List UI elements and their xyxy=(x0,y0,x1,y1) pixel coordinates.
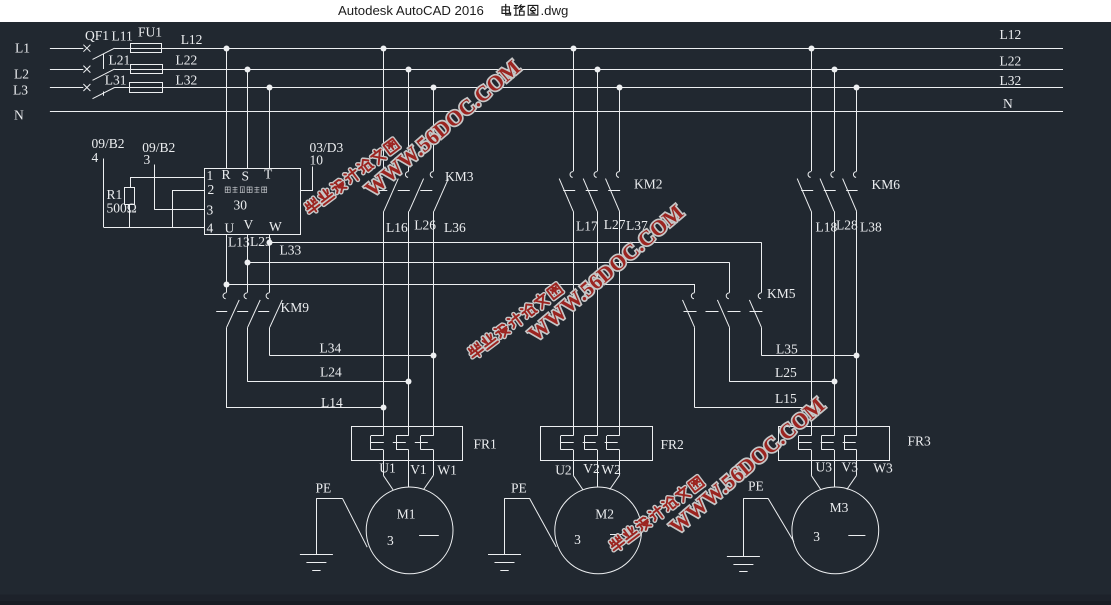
wire L13 feed line xyxy=(226,284,694,286)
label L18 xyxy=(816,220,838,235)
label L32 xyxy=(176,72,198,87)
label L17 xyxy=(576,219,598,234)
net label L12 right xyxy=(1000,27,1022,42)
svg-text:QF1: QF1 xyxy=(85,28,109,43)
wire pin2 xyxy=(172,190,204,227)
wire L34 xyxy=(269,355,433,357)
label PE M3 xyxy=(748,479,764,494)
wire L38 xyxy=(856,211,858,426)
breaker QF1 pole 2 xyxy=(83,66,130,81)
svg-text:L27: L27 xyxy=(604,217,626,232)
svg-text:KM5: KM5 xyxy=(767,286,796,301)
label L34 xyxy=(320,341,342,356)
svg-text:L11: L11 xyxy=(112,28,133,43)
svg-text:FU1: FU1 xyxy=(138,24,162,39)
label KM9 xyxy=(281,300,310,315)
wire L16 xyxy=(383,211,385,426)
label L25 xyxy=(775,365,797,380)
motor M3 xyxy=(792,487,879,574)
watermark 1 xyxy=(303,55,525,215)
svg-text:3: 3 xyxy=(207,203,214,218)
wire KM9 pole1 to L14 xyxy=(226,327,228,408)
resistor R1 xyxy=(125,188,135,205)
label U3 xyxy=(816,460,833,475)
svg-text:L32: L32 xyxy=(1000,73,1022,88)
wire PE M3 xyxy=(743,498,794,556)
net label L32 right xyxy=(1000,73,1022,88)
contactor KM9 xyxy=(216,242,282,327)
net label L1 xyxy=(15,41,30,56)
svg-text:T: T xyxy=(264,167,273,182)
wire U output (L13) xyxy=(226,235,228,285)
label L11 xyxy=(112,28,133,43)
node L35/W3 junction xyxy=(854,353,860,359)
svg-text:L14: L14 xyxy=(321,395,343,410)
svg-text:L2: L2 xyxy=(14,67,29,82)
svg-text:V3: V3 xyxy=(842,460,859,475)
node rail junction KM3-1 xyxy=(381,46,387,52)
node rail junction KM6-1 xyxy=(809,46,815,52)
svg-text:KM3: KM3 xyxy=(445,169,474,184)
svg-text:V1: V1 xyxy=(410,462,427,477)
contactor KM5 xyxy=(683,242,763,327)
motor M2 xyxy=(555,487,642,574)
label L33 xyxy=(280,243,302,258)
svg-text:W: W xyxy=(269,219,282,234)
svg-text:L35: L35 xyxy=(776,341,798,356)
label W3 xyxy=(873,460,893,475)
svg-text:U2: U2 xyxy=(555,463,572,478)
svg-text:L32: L32 xyxy=(176,72,198,87)
wire L32 rail xyxy=(163,87,1063,89)
label L31 xyxy=(105,72,127,87)
wire drop to KM6 pole 2 xyxy=(834,69,836,171)
reference 09/B2 3 xyxy=(142,140,175,167)
wire L24 xyxy=(247,381,408,383)
svg-text:3: 3 xyxy=(813,529,820,544)
svg-text:PE: PE xyxy=(748,479,764,494)
node L1/R junction xyxy=(224,46,230,52)
label R1 xyxy=(107,187,123,202)
overload relay FR2 xyxy=(541,426,653,460)
label L14 xyxy=(321,395,343,410)
label FU1 xyxy=(138,24,162,39)
wire L3 incoming xyxy=(50,87,83,89)
svg-text:PE: PE xyxy=(316,480,332,495)
label L35 xyxy=(776,341,798,356)
ground M3 xyxy=(727,557,760,572)
node rail junction KM2-2 xyxy=(595,67,601,73)
wire L23 feed line xyxy=(247,262,729,264)
svg-text:N: N xyxy=(1003,96,1013,111)
reference 09/B2 4 xyxy=(92,136,125,165)
svg-text:09/B2: 09/B2 xyxy=(92,136,125,151)
node L34/W1 junction xyxy=(431,353,437,359)
svg-text:L18: L18 xyxy=(816,220,838,235)
svg-text:L28: L28 xyxy=(836,217,858,232)
wire drop to inverter S xyxy=(247,69,249,168)
label KM6 xyxy=(872,177,901,192)
svg-text:4: 4 xyxy=(92,150,99,165)
node U/L13 junction xyxy=(224,282,230,288)
wire drop to KM2 pole 2 xyxy=(597,69,599,171)
wire drop to KM2 pole 3 xyxy=(619,88,621,172)
fuse FU1 element 3 xyxy=(130,83,164,93)
svg-text:U: U xyxy=(225,221,235,236)
wire pin3 from 09/B2-3 xyxy=(154,165,204,210)
svg-text:FR3: FR3 xyxy=(908,433,932,448)
svg-text:L38: L38 xyxy=(860,219,882,234)
wire KM9 pole3 to L34 xyxy=(269,327,271,355)
wire drop to KM3 pole 2 xyxy=(408,69,410,171)
label KM5 xyxy=(767,286,796,301)
svg-text:M1: M1 xyxy=(397,506,416,521)
label L26 xyxy=(414,217,436,232)
label PE M2 xyxy=(511,480,527,495)
wire V2 lead xyxy=(597,460,599,487)
svg-text:4: 4 xyxy=(207,221,214,236)
label V1 xyxy=(410,462,427,477)
net label L3 xyxy=(13,83,28,98)
wire L36 xyxy=(433,211,435,426)
label PE M1 xyxy=(316,480,332,495)
svg-text:U1: U1 xyxy=(379,461,396,476)
svg-text:L15: L15 xyxy=(775,391,797,406)
wire W1 lead xyxy=(424,460,434,489)
node V/L23 junction xyxy=(245,260,251,266)
wire drop to inverter T xyxy=(269,88,271,169)
label L13 xyxy=(228,234,250,249)
wire L12 rail xyxy=(162,48,1063,50)
label W1 xyxy=(437,463,457,478)
label U2 xyxy=(555,463,572,478)
wire pin4 from 09/B2-4 xyxy=(104,159,205,228)
svg-text:2: 2 xyxy=(208,182,215,197)
svg-text:500Ω: 500Ω xyxy=(107,201,137,216)
label L27 xyxy=(604,217,626,232)
node W/L33 junction xyxy=(267,240,273,246)
wire KM5 pole3 to L35 xyxy=(761,327,763,355)
breaker QF1 pole 3 xyxy=(83,84,129,99)
wire KM5 pole2 to L25 xyxy=(729,327,731,381)
label L38 xyxy=(860,219,882,234)
svg-text:M3: M3 xyxy=(830,500,849,515)
label L21 xyxy=(109,53,131,68)
label L12 xyxy=(181,32,203,47)
label V3 xyxy=(842,460,859,475)
overload relay FR1 xyxy=(352,426,463,460)
svg-text:L36: L36 xyxy=(444,220,466,235)
title bar xyxy=(0,0,1111,22)
node rail junction KM2-3 xyxy=(617,85,623,91)
label L15 xyxy=(775,391,797,406)
wire L26 xyxy=(408,211,410,426)
svg-text:PE: PE xyxy=(511,480,527,495)
wire drop to KM3 pole 1 xyxy=(383,48,385,171)
label FR2 xyxy=(661,437,684,452)
wire drop to KM6 pole 1 xyxy=(811,48,813,171)
contactor KM2 xyxy=(559,172,620,212)
svg-text:1: 1 xyxy=(207,168,214,183)
node L14/U1 junction xyxy=(381,405,387,411)
label L36 xyxy=(444,220,466,235)
wire L2 incoming xyxy=(50,69,83,71)
ground M2 xyxy=(488,555,521,571)
wire R1 to pin4 line xyxy=(129,204,131,227)
net label L22 right xyxy=(1000,53,1022,68)
breaker QF1 pole 1 xyxy=(83,45,130,60)
svg-text:V2: V2 xyxy=(583,461,600,476)
wire pin1 to R1 xyxy=(130,178,204,188)
wire pin30 to 03/D3 xyxy=(300,167,313,191)
label L16 xyxy=(386,220,408,235)
wire U2 lead xyxy=(573,460,583,490)
label FR1 xyxy=(474,436,497,451)
wire V1 lead xyxy=(408,460,410,487)
wire W3 lead xyxy=(847,460,857,489)
net label L2 xyxy=(14,67,29,82)
wire PE M1 xyxy=(316,498,367,554)
svg-text:N: N xyxy=(14,108,24,123)
svg-text:L1: L1 xyxy=(15,41,30,56)
label QF1 xyxy=(85,28,109,43)
label L28 xyxy=(836,217,858,232)
svg-text:L16: L16 xyxy=(386,220,408,235)
svg-text:KM9: KM9 xyxy=(281,300,310,315)
node rail junction KM3-3 xyxy=(431,85,437,91)
wire V output (L23) xyxy=(247,235,249,263)
svg-text:KM2: KM2 xyxy=(634,177,663,192)
svg-text:V: V xyxy=(244,217,254,232)
svg-text:R: R xyxy=(222,167,231,182)
reference 03/D3 10 xyxy=(310,140,344,168)
wire L14 xyxy=(226,407,383,409)
wire KM5 pole1 to L15 xyxy=(694,327,696,407)
svg-text:L33: L33 xyxy=(280,243,302,258)
svg-text:L12: L12 xyxy=(181,32,203,47)
node L25/V3 junction xyxy=(832,379,838,385)
svg-text:L31: L31 xyxy=(105,72,127,87)
wire PE M2 xyxy=(505,498,557,554)
label FR3 xyxy=(908,433,932,448)
wire drop to KM3 pole 3 xyxy=(433,88,435,172)
wire drop to KM2 pole 1 xyxy=(573,48,575,171)
wire L37 xyxy=(619,211,621,426)
label R1 value 500 ohm xyxy=(107,201,137,216)
wire L25 xyxy=(729,381,834,383)
label L24 xyxy=(320,365,342,380)
wire U1 lead xyxy=(383,460,393,490)
label L22 xyxy=(176,53,198,68)
label V2 xyxy=(583,461,600,476)
svg-text:FR2: FR2 xyxy=(661,437,684,452)
watermark 3 xyxy=(608,393,830,553)
svg-text:L13: L13 xyxy=(228,234,250,249)
svg-text:3: 3 xyxy=(144,152,151,167)
net label N left xyxy=(14,108,24,123)
svg-text:S: S xyxy=(242,169,250,184)
svg-text:L3: L3 xyxy=(13,83,28,98)
contactor KM3 xyxy=(375,172,448,212)
node rail junction KM2-1 xyxy=(571,46,577,52)
wire L33 feed line xyxy=(269,242,761,244)
node rail junction KM3-2 xyxy=(406,67,412,73)
fuse FU1 element 1 xyxy=(130,44,162,53)
svg-text:L22: L22 xyxy=(176,53,198,68)
wire V3 lead xyxy=(834,460,836,487)
label W2 xyxy=(601,462,621,477)
svg-text:W1: W1 xyxy=(437,463,457,478)
wire W2 lead xyxy=(610,460,620,489)
wire L28 xyxy=(834,211,836,426)
wire L17 xyxy=(573,211,575,426)
ground M1 xyxy=(300,555,333,571)
node rail junction KM6-3 xyxy=(854,85,860,91)
svg-text:L24: L24 xyxy=(320,365,342,380)
svg-text:30: 30 xyxy=(234,197,248,212)
wire N rail xyxy=(50,111,1063,113)
net label N right xyxy=(1003,96,1013,111)
inverter brand text xyxy=(225,187,267,193)
svg-text:U3: U3 xyxy=(816,460,833,475)
svg-text:L17: L17 xyxy=(576,219,598,234)
svg-text:L25: L25 xyxy=(775,365,797,380)
wire L1 incoming xyxy=(50,48,83,50)
svg-text:3: 3 xyxy=(387,533,394,548)
svg-text:W2: W2 xyxy=(601,462,621,477)
wire drop to KM6 pole 3 xyxy=(856,88,858,172)
label L23 xyxy=(250,234,272,249)
wire L35 xyxy=(761,355,856,357)
svg-text:L21: L21 xyxy=(109,53,131,68)
svg-text:3: 3 xyxy=(574,532,581,547)
overload relay FR3 xyxy=(779,426,890,460)
svg-text:KM6: KM6 xyxy=(872,177,901,192)
wire U3 lead xyxy=(811,460,821,490)
node L3/T junction xyxy=(267,85,273,91)
wire L22 rail xyxy=(163,69,1063,71)
wire L27 xyxy=(597,211,599,426)
node rail junction KM6-2 xyxy=(832,67,838,73)
svg-text:FR1: FR1 xyxy=(474,436,497,451)
label L37 xyxy=(626,218,648,233)
contactor KM6 xyxy=(797,172,857,212)
breaker QF1 linkage xyxy=(103,54,105,96)
label KM2 xyxy=(634,177,663,192)
wire L15 xyxy=(695,407,812,409)
watermark 2 xyxy=(466,200,688,360)
svg-text:Autodesk AutoCAD 2016: Autodesk AutoCAD 2016 xyxy=(338,3,484,18)
wire W output (L33) xyxy=(269,235,271,243)
wire KM9 pole2 to L24 xyxy=(247,327,249,381)
svg-text:W3: W3 xyxy=(873,460,893,475)
node L2/S junction xyxy=(245,67,251,73)
fuse FU1 element 2 xyxy=(130,65,163,74)
wire drop to inverter R xyxy=(226,48,228,168)
svg-text:.dwg: .dwg xyxy=(541,3,569,18)
svg-text:L26: L26 xyxy=(414,217,436,232)
node L24/V1 junction xyxy=(406,379,412,385)
svg-text:L34: L34 xyxy=(320,341,342,356)
motor M1 xyxy=(366,487,453,574)
svg-text:10: 10 xyxy=(310,153,324,168)
label U1 xyxy=(379,461,396,476)
svg-text:M2: M2 xyxy=(595,506,614,521)
wire L18 xyxy=(811,211,813,426)
inverter U1 (Siemens frequency converter) xyxy=(205,167,301,236)
svg-text:L22: L22 xyxy=(1000,53,1022,68)
svg-text:L12: L12 xyxy=(1000,27,1022,42)
label KM3 xyxy=(445,169,474,184)
node L15/U3 junction xyxy=(809,405,813,409)
